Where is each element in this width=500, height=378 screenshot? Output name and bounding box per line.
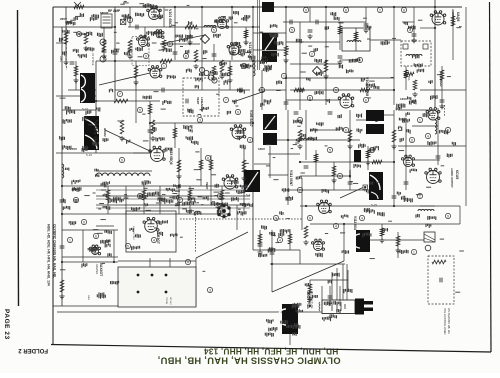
ground G21 xyxy=(227,78,232,83)
wire xyxy=(329,286,331,306)
callout 25 xyxy=(93,233,98,238)
junction J34 xyxy=(61,261,63,263)
wire xyxy=(287,110,289,205)
wire centre rail lower xyxy=(252,155,254,250)
junction J22 xyxy=(149,122,151,124)
svg-text:3: 3 xyxy=(249,138,251,142)
wire xyxy=(174,123,176,148)
IF transformer T3 can xyxy=(262,33,277,50)
ground G25 xyxy=(243,40,248,45)
svg-text:AUDIO OUT: AUDIO OUT xyxy=(451,9,455,26)
svg-text:V111 6SN7: V111 6SN7 xyxy=(289,170,293,186)
wire (dashed boost) xyxy=(65,28,67,70)
svg-text:9: 9 xyxy=(309,216,311,220)
wire xyxy=(412,159,440,161)
resistor R37 xyxy=(220,190,224,200)
ground G12 xyxy=(303,240,308,245)
wire xyxy=(253,49,286,51)
svg-text:9: 9 xyxy=(305,8,307,12)
resistor R5 xyxy=(120,120,124,134)
audio output transformer T10 (dashed box) xyxy=(401,41,431,66)
svg-text:V105 6AG7: V105 6AG7 xyxy=(249,110,253,127)
svg-text:8: 8 xyxy=(403,8,405,12)
junction J27 xyxy=(393,89,395,91)
small tube V2c xyxy=(100,56,106,62)
wire xyxy=(393,110,395,205)
ground G6 xyxy=(193,64,198,69)
tube V6 6CN7 sync xyxy=(227,43,241,55)
callout 39 xyxy=(343,7,348,12)
svg-text:1: 1 xyxy=(243,64,245,68)
resistor R34 xyxy=(106,190,110,200)
wire xyxy=(305,110,307,160)
capacitor C25 xyxy=(158,196,163,198)
resistor R13 xyxy=(392,130,396,142)
resistor R48 xyxy=(451,16,455,26)
callout 36 xyxy=(259,87,264,92)
svg-text:OF V12: OF V12 xyxy=(169,297,171,305)
tube V2 6U8 mixer xyxy=(154,30,164,39)
wire xyxy=(144,27,146,44)
small tube V2b xyxy=(100,39,106,45)
pot P2 xyxy=(204,70,209,75)
callout 28 xyxy=(307,95,312,100)
ground G28 xyxy=(363,28,368,33)
callout 33 xyxy=(161,63,166,68)
stub leads mid left xyxy=(60,92,249,207)
wire B+ right xyxy=(434,0,436,108)
wire xyxy=(56,95,96,97)
stub leads top left xyxy=(70,10,250,59)
resistor R28 xyxy=(74,66,78,76)
svg-text:4: 4 xyxy=(335,224,337,228)
fusible resistor 68000 box xyxy=(101,14,112,28)
svg-text:RF AMP: RF AMP xyxy=(108,9,121,13)
svg-text:5: 5 xyxy=(329,148,331,152)
linearity control dashed box xyxy=(183,78,219,116)
wire xyxy=(259,230,261,250)
capacitor tone C55 xyxy=(440,278,442,283)
svg-text:9: 9 xyxy=(275,216,277,220)
wire IF rail xyxy=(285,7,287,110)
coil L12 xyxy=(300,138,314,140)
wire xyxy=(213,44,215,61)
wire xyxy=(135,61,137,123)
wire CRT pin lead xyxy=(331,272,333,300)
wire xyxy=(253,249,300,251)
ground G32 xyxy=(365,160,370,165)
coil deflection xyxy=(418,209,434,211)
wire xyxy=(370,39,401,41)
svg-text:1: 1 xyxy=(69,238,71,242)
tube V3 oscillator xyxy=(137,35,150,46)
resistor R52 xyxy=(360,88,370,92)
wire CRT lead xyxy=(347,270,349,292)
wire xyxy=(160,43,200,45)
wire xyxy=(340,59,356,61)
panel outer top edge xyxy=(118,260,196,262)
chassis dashed divider xyxy=(180,218,302,220)
wire xyxy=(243,148,245,214)
crystal box with X xyxy=(121,19,126,24)
svg-text:FOLDER 2: FOLDER 2 xyxy=(18,347,48,353)
svg-text:6: 6 xyxy=(339,174,341,178)
capacitor C21 xyxy=(148,130,153,132)
wire label row xyxy=(96,189,250,191)
wire xyxy=(397,232,399,258)
wire xyxy=(62,261,118,263)
ground G1 xyxy=(63,60,68,65)
svg-text:265V: 265V xyxy=(60,17,67,21)
wire xyxy=(62,185,250,187)
capacitor C18 xyxy=(212,54,217,56)
callout 14 xyxy=(407,27,412,32)
ground G13 xyxy=(59,294,64,299)
small terminal circle xyxy=(425,245,431,251)
stub leads mid right xyxy=(266,121,444,194)
tube V18 6T8 sound det xyxy=(426,108,440,120)
ground G10 xyxy=(347,144,352,149)
resistor R31 xyxy=(173,128,177,138)
resistor R9 xyxy=(114,99,128,103)
resistor R21 xyxy=(60,280,64,292)
svg-text:HBU, HD, HDU, HF, HFU, HH, HHU: HBU, HD, HDU, HF, HFU, HH, HHU, 134 xyxy=(47,224,51,286)
value labels yoke xyxy=(265,303,302,337)
shielded lead double line xyxy=(257,0,259,70)
wire xyxy=(290,89,394,91)
wire xyxy=(343,224,345,261)
capacitor C20 xyxy=(186,99,188,104)
capacitor C23 xyxy=(74,200,79,202)
svg-text:345V: 345V xyxy=(87,295,89,301)
junction J11 xyxy=(61,213,63,215)
tube V13 6S4 vert output xyxy=(317,200,332,213)
resistor tone pot xyxy=(432,260,446,264)
ground G4 xyxy=(119,136,124,141)
wire xyxy=(310,279,348,281)
callout 23 xyxy=(177,197,182,202)
antenna labels xyxy=(144,3,157,9)
junction J17 xyxy=(305,205,307,207)
wire xyxy=(96,225,114,227)
wire xyxy=(325,7,327,105)
svg-text:160V: 160V xyxy=(258,147,265,151)
wire xyxy=(96,170,152,172)
resistor R25 xyxy=(162,40,166,50)
resistor R59 volume xyxy=(404,72,414,76)
wire xyxy=(437,108,439,165)
svg-text:4: 4 xyxy=(361,216,363,220)
junction J26 xyxy=(325,60,327,62)
resistor R51 xyxy=(294,88,304,92)
callout 5 xyxy=(241,63,246,68)
interlock panel xyxy=(118,267,196,307)
resistor R20 xyxy=(177,160,181,172)
svg-text:TO PIN: TO PIN xyxy=(165,297,167,305)
svg-text:2: 2 xyxy=(379,8,381,12)
resistor R2 xyxy=(64,32,68,44)
picture tube base connector xyxy=(319,299,373,315)
value labels flyback section xyxy=(60,89,151,153)
value labels CRT drive xyxy=(259,211,349,257)
pot P3 xyxy=(208,75,213,80)
sound discriminator transformer T7 xyxy=(366,110,384,134)
callout 6 xyxy=(117,91,122,96)
wire xyxy=(393,7,395,105)
junction J16 xyxy=(393,161,395,163)
wire xyxy=(56,42,66,44)
wire xyxy=(125,186,127,214)
svg-text:VOL CONTROL USED: VOL CONTROL USED xyxy=(443,308,447,334)
callout 44 xyxy=(363,97,368,102)
dashed shield line xyxy=(195,211,197,252)
callout 22 xyxy=(137,193,142,198)
capacitor C29 xyxy=(412,34,417,36)
capacitor C15 xyxy=(102,50,107,52)
wire HV cage top xyxy=(62,229,118,231)
diode X1 phase detector xyxy=(201,35,210,44)
resistor R54 xyxy=(260,59,268,63)
wire xyxy=(412,125,438,127)
tube V17 6CU5 xyxy=(425,168,441,183)
tube V12 6AX4GT damper xyxy=(89,245,100,255)
resistor R36 xyxy=(188,190,192,200)
svg-text:9: 9 xyxy=(139,194,141,198)
wire xyxy=(271,230,273,292)
ground G37 xyxy=(257,250,262,255)
wire xyxy=(299,22,301,110)
deflection yoke L20 xyxy=(278,304,298,334)
coil L9 xyxy=(435,120,437,134)
callout 29 xyxy=(247,137,252,142)
power transformer T9 xyxy=(353,230,370,252)
resistor R32 xyxy=(199,160,203,170)
wire xyxy=(420,27,435,29)
svg-text:4: 4 xyxy=(129,18,131,22)
svg-text:5: 5 xyxy=(447,128,449,132)
svg-text:2: 2 xyxy=(371,148,373,152)
callout 53 xyxy=(67,237,72,242)
capacitor C11 xyxy=(60,246,65,248)
ground G30 xyxy=(439,104,444,109)
svg-text:1: 1 xyxy=(283,74,285,78)
svg-text:PAGE 23: PAGE 23 xyxy=(3,309,10,340)
callout 56 xyxy=(411,249,416,254)
resistor R44 xyxy=(396,236,400,246)
callout 49 xyxy=(273,215,278,220)
tube V16 6AQ5 audio output xyxy=(430,11,446,25)
svg-text:2: 2 xyxy=(219,194,221,198)
value labels sound xyxy=(399,112,455,158)
value labels tuner section xyxy=(60,13,119,58)
vertical output transformer T8 xyxy=(369,172,383,200)
junction J7 xyxy=(325,6,327,8)
wire xyxy=(300,161,394,163)
wire xyxy=(268,174,288,176)
capacitor C3 xyxy=(173,52,178,54)
coil L5 peaking xyxy=(347,41,361,42)
callout 18 xyxy=(409,137,414,142)
capacitor C19 xyxy=(162,88,164,93)
callout 42 xyxy=(425,133,430,138)
wire xyxy=(283,21,366,23)
svg-text:8: 8 xyxy=(309,96,311,100)
wire xyxy=(96,100,160,102)
junction J19 xyxy=(252,26,254,28)
svg-text:ON CHASSIS HB, HH: ON CHASSIS HB, HH xyxy=(447,308,451,334)
svg-text:8: 8 xyxy=(207,156,209,160)
ground G18 xyxy=(101,54,106,59)
small hatched box xyxy=(424,232,435,242)
svg-text:9: 9 xyxy=(145,54,147,58)
junction J14 xyxy=(287,139,289,141)
tube V9 socket xyxy=(222,175,238,189)
wire xyxy=(113,230,115,262)
svg-text:5-25: 5-25 xyxy=(371,203,377,207)
svg-text:2: 2 xyxy=(299,188,301,192)
tube V8 6BQ6 horiz output xyxy=(149,146,165,161)
wire xyxy=(355,28,357,51)
svg-text:6AX4GT: 6AX4GT xyxy=(99,263,103,277)
capacitor C16 xyxy=(128,50,133,52)
wire damper row xyxy=(62,256,118,258)
small tube V2d xyxy=(77,32,82,37)
wire left rail xyxy=(61,27,63,230)
ground G26 xyxy=(307,34,312,39)
capacitor C10 xyxy=(270,252,275,254)
wire xyxy=(163,7,165,27)
callout 13 xyxy=(357,57,362,62)
value labels damper section xyxy=(69,221,118,299)
resistor R55 xyxy=(244,30,248,38)
wire xyxy=(420,89,466,91)
wire xyxy=(398,145,466,147)
wire diagonal sync xyxy=(233,91,265,102)
resistor R40 xyxy=(308,284,312,294)
tube V19 6AV6 xyxy=(402,155,415,166)
control row labels xyxy=(103,192,249,213)
wire CRT feed xyxy=(270,263,345,265)
junction J25 xyxy=(285,77,287,79)
ground G14 xyxy=(176,174,181,179)
callout 43 xyxy=(445,127,450,132)
value labels HV cage xyxy=(130,220,177,250)
wire xyxy=(309,7,311,22)
capacitor C22 xyxy=(60,200,65,202)
wire xyxy=(333,162,335,190)
callout 10 xyxy=(289,27,294,32)
wire xyxy=(398,109,435,111)
callout 27 xyxy=(417,117,422,122)
wire xyxy=(56,152,150,154)
wire label row xyxy=(96,198,250,200)
callout 8 xyxy=(197,117,202,122)
capacitor C4 xyxy=(230,52,235,54)
callout 55 xyxy=(207,287,212,292)
capacitor C27 xyxy=(338,56,343,58)
capacitor C1 xyxy=(70,62,75,64)
svg-text:9: 9 xyxy=(447,214,449,218)
svg-text:1: 1 xyxy=(163,64,165,68)
callout 2 xyxy=(143,53,148,58)
value labels IF section xyxy=(122,11,255,60)
resistor R46 xyxy=(440,70,444,80)
IF transformer T6 can xyxy=(263,133,277,145)
antenna chevron xyxy=(74,2,81,6)
callout 54 xyxy=(185,259,190,264)
callout 11 xyxy=(309,51,314,56)
diode X2 video detector xyxy=(313,67,322,76)
callout 26 xyxy=(277,237,282,242)
wire xyxy=(310,223,460,225)
wire xyxy=(315,150,317,176)
label on T5 xyxy=(265,116,275,129)
label on T3 xyxy=(265,34,276,50)
wire vert output bus xyxy=(300,205,460,207)
svg-text:1: 1 xyxy=(261,88,263,92)
capacitor C35 xyxy=(328,296,333,298)
svg-text:9: 9 xyxy=(121,158,123,162)
wire xyxy=(309,280,311,306)
svg-text:4: 4 xyxy=(427,134,429,138)
coil L8 xyxy=(253,60,255,76)
svg-text:9: 9 xyxy=(237,110,239,114)
wire xyxy=(349,110,351,190)
wire xyxy=(339,22,341,50)
svg-text:6: 6 xyxy=(365,98,367,102)
svg-text:7: 7 xyxy=(119,92,121,96)
wire xyxy=(159,186,161,214)
schematic frame left edge xyxy=(52,7,54,345)
callout 16 xyxy=(327,147,332,152)
callout 45 xyxy=(343,127,348,132)
junction J4 xyxy=(231,6,233,8)
tube V7 6SN7 horiz osc xyxy=(230,125,246,139)
svg-text:V112 6S4: V112 6S4 xyxy=(353,216,357,230)
junction J1 xyxy=(114,26,116,28)
wire xyxy=(405,66,407,90)
wire xyxy=(253,32,286,34)
resistor R26 xyxy=(212,66,216,76)
junction J3 xyxy=(201,6,203,8)
wire filament bus xyxy=(53,305,118,307)
IF transformer T2 can xyxy=(262,2,274,12)
wire xyxy=(75,61,77,90)
horiz osc transformer T11 xyxy=(244,170,260,192)
svg-text:2: 2 xyxy=(179,198,181,202)
svg-text:5: 5 xyxy=(127,244,129,248)
wire xyxy=(356,119,366,121)
junction J35 xyxy=(113,261,115,263)
svg-text:3: 3 xyxy=(199,118,201,122)
wire diagonal flyback to tube xyxy=(105,130,152,152)
resistor R38 xyxy=(288,234,292,244)
svg-text:5: 5 xyxy=(75,198,77,202)
wire xyxy=(143,186,145,214)
ground G2 xyxy=(83,46,88,51)
tube V14 xyxy=(312,239,325,250)
callout 3 xyxy=(167,41,172,46)
callout 51 xyxy=(125,243,130,248)
wire xyxy=(299,250,301,264)
svg-text:5-10: 5-10 xyxy=(86,153,92,157)
callout 40 xyxy=(377,7,382,12)
capacitor C31 xyxy=(304,166,309,168)
value labels audio section xyxy=(347,22,438,111)
callout 30 xyxy=(205,155,210,160)
wire xyxy=(103,27,105,61)
resistor R53 xyxy=(372,160,382,164)
